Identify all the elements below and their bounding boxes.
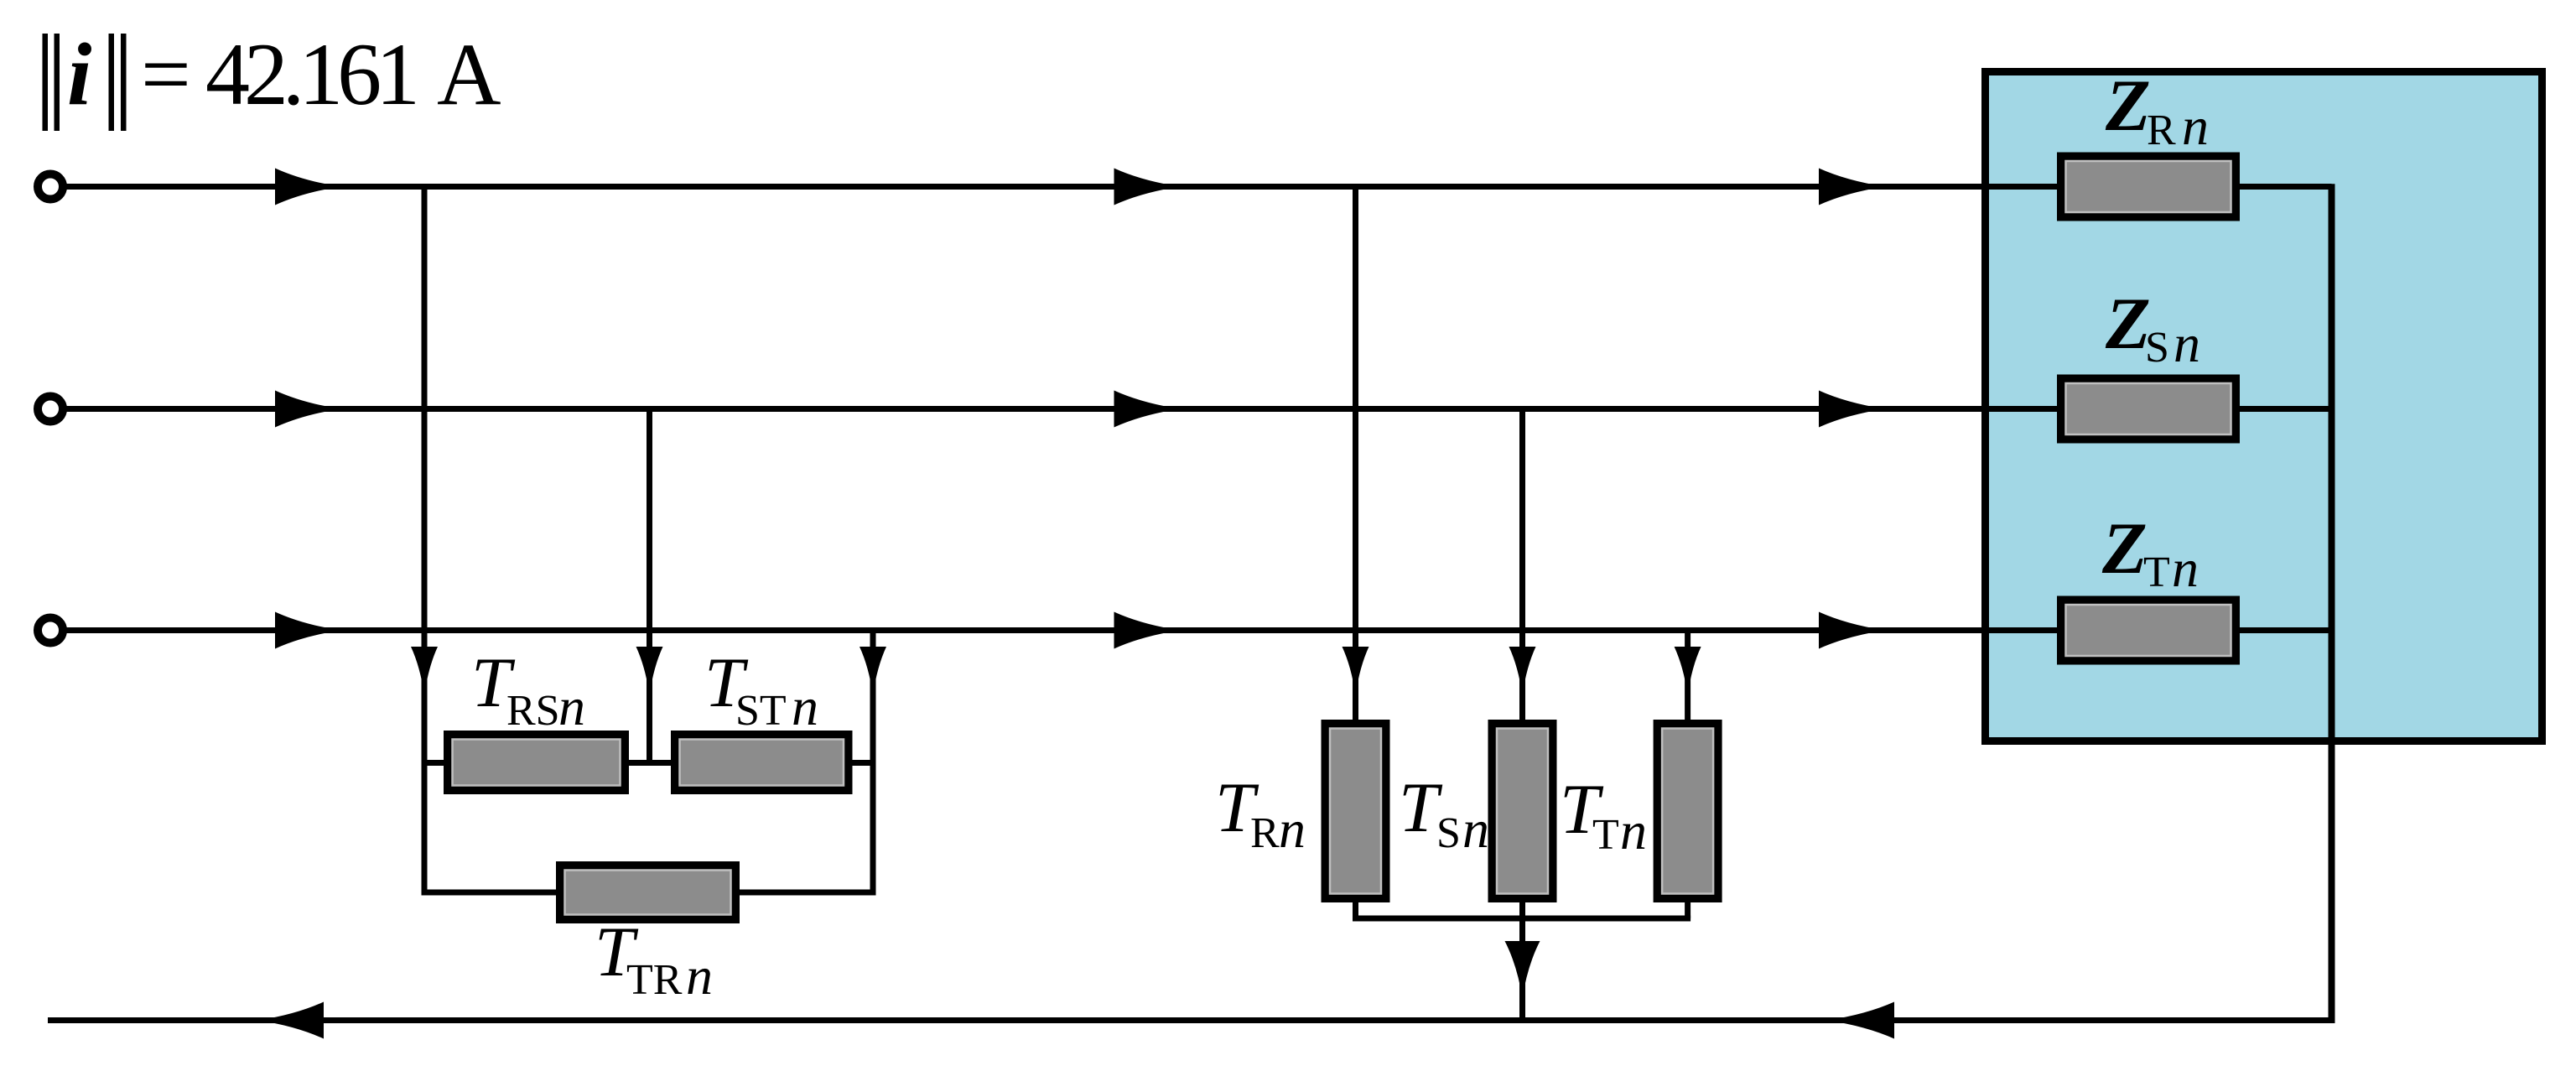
- terminal S: [38, 397, 63, 422]
- resistor Z_Tn: [2061, 600, 2236, 661]
- terminal R: [38, 174, 63, 200]
- wire delta bottom row: [422, 890, 876, 896]
- svg-text:n: n: [792, 677, 818, 736]
- resistor T_RSn: [448, 735, 626, 791]
- neutral return wire: [48, 1017, 2332, 1023]
- arrow phase T segment 1: [275, 612, 340, 649]
- svg-text:n: n: [686, 946, 713, 1006]
- svg-text:n: n: [1620, 801, 1647, 861]
- arrow into delta S: [636, 647, 663, 695]
- svg-text:Z: Z: [2101, 508, 2148, 590]
- wire star bottom bar: [1353, 916, 1690, 922]
- wire phase S: [65, 406, 2332, 412]
- label ||i|| = 42.161 A: [43, 25, 501, 131]
- svg-text:R: R: [2147, 107, 2176, 154]
- terminal T: [38, 618, 63, 643]
- svg-text:ST: ST: [735, 687, 787, 735]
- wire phase R: [65, 184, 2332, 190]
- arrow into delta T: [860, 647, 886, 695]
- wire tap T to star: [1685, 631, 1690, 919]
- svg-text:=: =: [141, 25, 191, 123]
- svg-text:Z: Z: [2105, 65, 2151, 147]
- svg-text:TR: TR: [626, 956, 683, 1004]
- svg-text:n: n: [1279, 799, 1306, 859]
- svg-text:n: n: [1462, 799, 1489, 859]
- svg-text:n: n: [2172, 538, 2199, 598]
- svg-text:S: S: [1436, 809, 1461, 857]
- arrow into star T: [1675, 647, 1701, 695]
- svg-text:n: n: [2173, 314, 2200, 373]
- svg-text:S: S: [2145, 324, 2169, 372]
- svg-text:RS: RS: [506, 687, 560, 735]
- arrow neutral right: [1827, 1002, 1894, 1039]
- resistor T_TRn: [560, 866, 736, 920]
- svg-text:T: T: [1592, 811, 1619, 859]
- resistor T_Sn: [1492, 724, 1553, 899]
- svg-text:n: n: [2182, 96, 2209, 156]
- wire tap S to delta: [647, 409, 652, 766]
- svg-text:n: n: [558, 677, 585, 736]
- wire phase T: [65, 627, 2332, 633]
- arrow phase R segment 3: [1819, 169, 1885, 205]
- arrow phase S segment 1: [275, 391, 340, 428]
- arrow phase T segment 3: [1819, 612, 1885, 649]
- arrow phase S segment 2: [1114, 391, 1181, 428]
- wire tap S to star / star point: [1519, 409, 1525, 1021]
- wire tap T to delta: [870, 631, 876, 893]
- arrow phase S segment 3: [1819, 391, 1885, 428]
- arrow neutral left: [258, 1002, 324, 1039]
- arrow into delta R: [411, 647, 438, 695]
- arrow into star R: [1343, 647, 1369, 695]
- wire delta top row: [424, 760, 873, 766]
- arrow phase R segment 2: [1114, 169, 1181, 205]
- resistor T_STn: [675, 735, 849, 791]
- svg-text:42.161: 42.161: [205, 25, 420, 123]
- svg-text:i: i: [67, 25, 91, 123]
- load box Z (blue): [1986, 72, 2542, 741]
- arrow phase R segment 1: [275, 169, 340, 205]
- resistor T_Rn: [1325, 724, 1386, 899]
- wire tap R to delta: [422, 187, 428, 893]
- resistor Z_Sn: [2061, 378, 2236, 439]
- arrow into star S: [1509, 647, 1536, 695]
- star-point bus: [2329, 184, 2335, 1023]
- wire tap R to star: [1353, 187, 1358, 919]
- resistor Z_Rn: [2061, 156, 2236, 217]
- arrow phase T segment 2: [1114, 612, 1181, 649]
- svg-text:R: R: [1250, 809, 1280, 857]
- svg-text:T: T: [2143, 549, 2170, 596]
- resistor T_Tn: [1657, 724, 1718, 899]
- svg-text:A: A: [437, 25, 501, 123]
- svg-text:Z: Z: [2105, 283, 2151, 365]
- arrow star point to neutral: [1505, 941, 1540, 998]
